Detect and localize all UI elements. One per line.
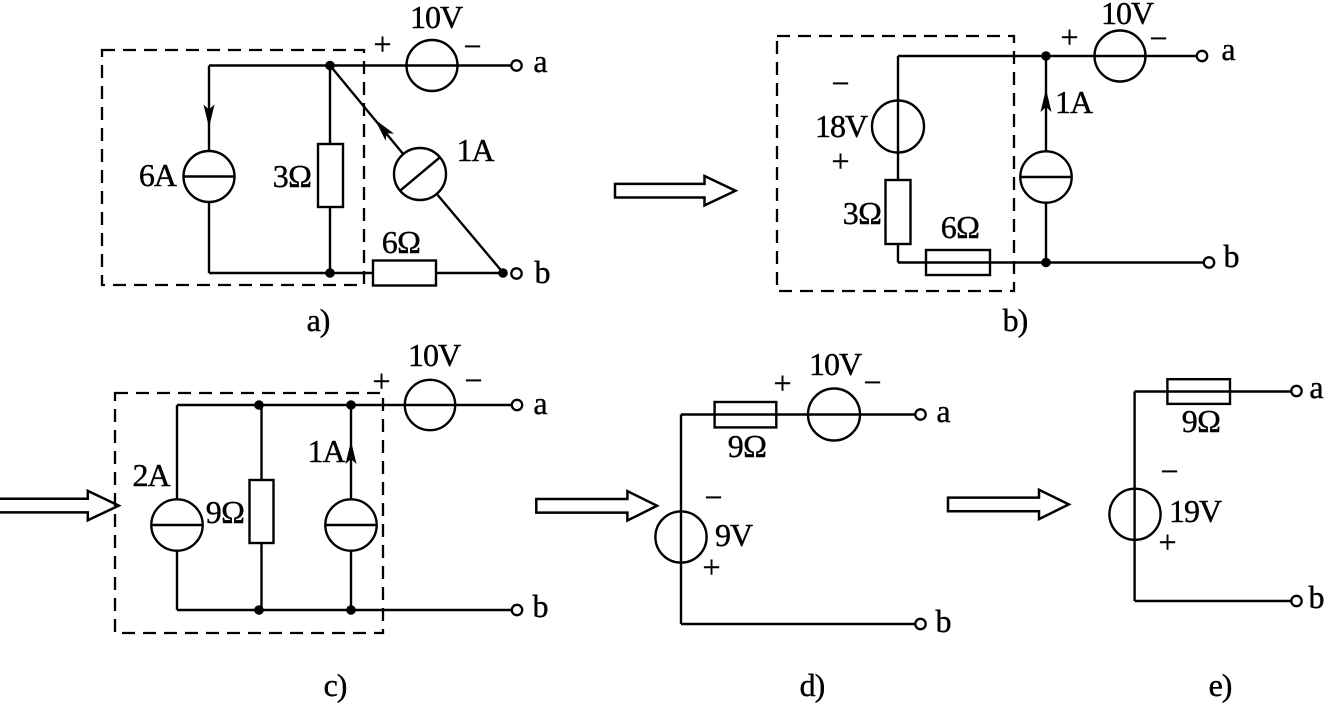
current source 2A — [151, 499, 202, 550]
block arrow c to d — [536, 491, 657, 520]
current source 1A (c) — [325, 499, 376, 550]
voltage source 18V — [872, 101, 924, 153]
node dot top (b) — [1041, 51, 1051, 61]
resistor 9Ohm (e) — [1167, 379, 1230, 404]
wire c: 2A branch bottom — [176, 551, 178, 610]
terminal a (a) — [511, 60, 521, 70]
svg-text:6Ω: 6Ω — [941, 209, 980, 245]
wire e: top horizontal — [1135, 390, 1291, 392]
svg-text:1A: 1A — [456, 132, 494, 168]
terminal a (d) — [915, 409, 925, 419]
svg-text:b: b — [533, 588, 548, 624]
wire a: diagonal lower segment — [437, 194, 503, 273]
svg-text:−: − — [1160, 453, 1177, 489]
svg-text:−: − — [464, 362, 481, 398]
svg-text:a): a) — [307, 302, 330, 338]
dashed box (circuit a) — [102, 50, 364, 285]
wire c: top horizontal — [177, 404, 511, 406]
wire c: 9ohm branch top — [260, 405, 262, 480]
block arrow a to b — [615, 176, 736, 205]
svg-text:a: a — [1309, 369, 1323, 405]
svg-text:e): e) — [1209, 667, 1232, 703]
voltage source 10V (d) — [808, 389, 860, 441]
terminal b (d) — [915, 619, 925, 629]
terminal b (c) — [512, 605, 522, 615]
wire c: 1A branch bottom — [350, 551, 352, 610]
current source 1A (b) — [1020, 151, 1071, 202]
svg-text:3Ω: 3Ω — [843, 195, 882, 231]
voltage source 10V (c) — [405, 380, 455, 430]
svg-text:9Ω: 9Ω — [206, 494, 245, 530]
wire d: top horizontal — [681, 413, 915, 415]
wire a: bottom horizontal right — [436, 272, 499, 274]
wire a: 3ohm branch bottom — [329, 207, 331, 273]
resistor 9Ohm (d) — [715, 402, 777, 427]
svg-text:b): b) — [1003, 302, 1028, 338]
node dot bottom (b) — [1041, 258, 1051, 268]
current source I1 6A — [184, 151, 235, 202]
wire a: top horizontal — [209, 64, 511, 66]
wire b: right branch upper — [1045, 56, 1047, 151]
svg-text:+: + — [1158, 524, 1175, 560]
svg-text:6Ω: 6Ω — [382, 224, 421, 260]
terminal b (b) — [1204, 257, 1214, 267]
svg-text:a: a — [936, 393, 950, 429]
svg-text:1A: 1A — [1055, 84, 1093, 120]
node dot bottom (a) — [325, 268, 335, 278]
voltage source 10V (b) — [1095, 31, 1146, 82]
resistor 3Ohm (b) — [886, 180, 911, 244]
svg-text:2A: 2A — [132, 457, 170, 493]
terminal b (a) — [511, 268, 521, 278]
svg-text:1A: 1A — [307, 433, 345, 469]
svg-text:18V: 18V — [815, 108, 868, 144]
voltage source 10V (a) — [407, 40, 458, 91]
svg-text:19V: 19V — [1169, 493, 1222, 529]
dashed box (circuit c) — [115, 393, 383, 633]
voltage source 19V — [1109, 489, 1160, 540]
block arrow into c — [0, 491, 119, 520]
current source I2 1A (a) — [394, 148, 446, 200]
wire b: below 3ohm — [897, 244, 899, 263]
svg-text:+: + — [373, 26, 390, 62]
svg-text:10V: 10V — [410, 0, 463, 35]
node dot top-left (c) — [254, 400, 264, 410]
wire a: diagonal upper segment — [330, 66, 403, 155]
svg-text:−: − — [1149, 20, 1166, 56]
svg-text:b: b — [1224, 238, 1239, 274]
node dot bottom-right (c) — [346, 605, 356, 615]
wire e: bottom horizontal — [1135, 600, 1291, 602]
svg-text:d): d) — [800, 667, 825, 703]
wire b: top horizontal — [898, 55, 1196, 57]
svg-text:10V: 10V — [809, 346, 862, 382]
terminal a (e) — [1291, 386, 1301, 396]
resistor 6Ohm (b) — [926, 250, 990, 275]
resistor 6Ohm (a) — [373, 261, 436, 286]
wire d: bottom horizontal — [681, 623, 915, 625]
wire e: left vertical through 19V — [1133, 392, 1135, 602]
terminal a (b) — [1197, 51, 1207, 61]
svg-text:3Ω: 3Ω — [273, 158, 312, 194]
wire a: 3ohm branch top — [329, 66, 331, 145]
svg-text:9Ω: 9Ω — [728, 428, 767, 464]
terminal a (c) — [512, 400, 522, 410]
svg-text:−: − — [863, 364, 880, 400]
node dot b (a) — [498, 268, 508, 278]
svg-text:9V: 9V — [715, 517, 753, 553]
wire c: 2A branch top — [176, 405, 178, 499]
block arrow d to e — [948, 490, 1069, 519]
resistor 3Ohm (a) — [318, 144, 343, 207]
svg-text:+: + — [831, 143, 848, 179]
svg-text:a: a — [533, 43, 547, 79]
svg-text:a: a — [1221, 31, 1235, 67]
dashed box (circuit b) — [777, 36, 1014, 291]
svg-text:6A: 6A — [139, 157, 177, 193]
svg-text:b: b — [936, 603, 951, 639]
wire c: 9ohm branch bottom — [260, 543, 262, 610]
voltage source 9V — [655, 511, 706, 562]
wire d: left vertical through 9V — [680, 415, 682, 625]
svg-text:b: b — [1309, 579, 1324, 615]
svg-text:b: b — [535, 254, 550, 290]
svg-text:9Ω: 9Ω — [1182, 403, 1221, 439]
current arrow (up-left) on diagonal — [375, 120, 394, 141]
svg-text:10V: 10V — [408, 337, 461, 373]
svg-text:10V: 10V — [1101, 0, 1154, 31]
terminal b (e) — [1291, 596, 1301, 606]
wire a: bottom horizontal left — [209, 272, 373, 274]
svg-text:+: + — [372, 363, 389, 399]
current arrow (up) 1A (c) — [346, 441, 357, 464]
wire b: right branch lower — [1045, 203, 1047, 263]
svg-text:c): c) — [324, 667, 347, 703]
svg-text:−: − — [704, 479, 721, 515]
wire a: left branch top vertical — [208, 66, 210, 152]
wire a: left branch bottom vertical — [208, 202, 210, 273]
current arrow (down) on 6A branch — [204, 105, 215, 128]
resistor 9Ohm (c) — [250, 480, 274, 543]
wire b: left branch vertical through 18V — [897, 56, 899, 180]
node dot bottom-left (c) — [254, 605, 264, 615]
svg-text:−: − — [831, 65, 848, 101]
wire c: 1A branch top — [350, 405, 352, 499]
svg-text:+: + — [702, 549, 719, 585]
svg-text:+: + — [1060, 19, 1077, 55]
svg-text:a: a — [533, 385, 547, 421]
svg-text:−: − — [463, 28, 480, 64]
wire c: bottom horizontal — [177, 609, 511, 611]
svg-text:+: + — [773, 365, 790, 401]
current arrow (up) 1A (b) — [1041, 89, 1052, 112]
wire b: bottom horizontal — [898, 261, 1203, 263]
node dot top-right (c) — [346, 400, 356, 410]
node dot top (a) — [325, 61, 335, 71]
